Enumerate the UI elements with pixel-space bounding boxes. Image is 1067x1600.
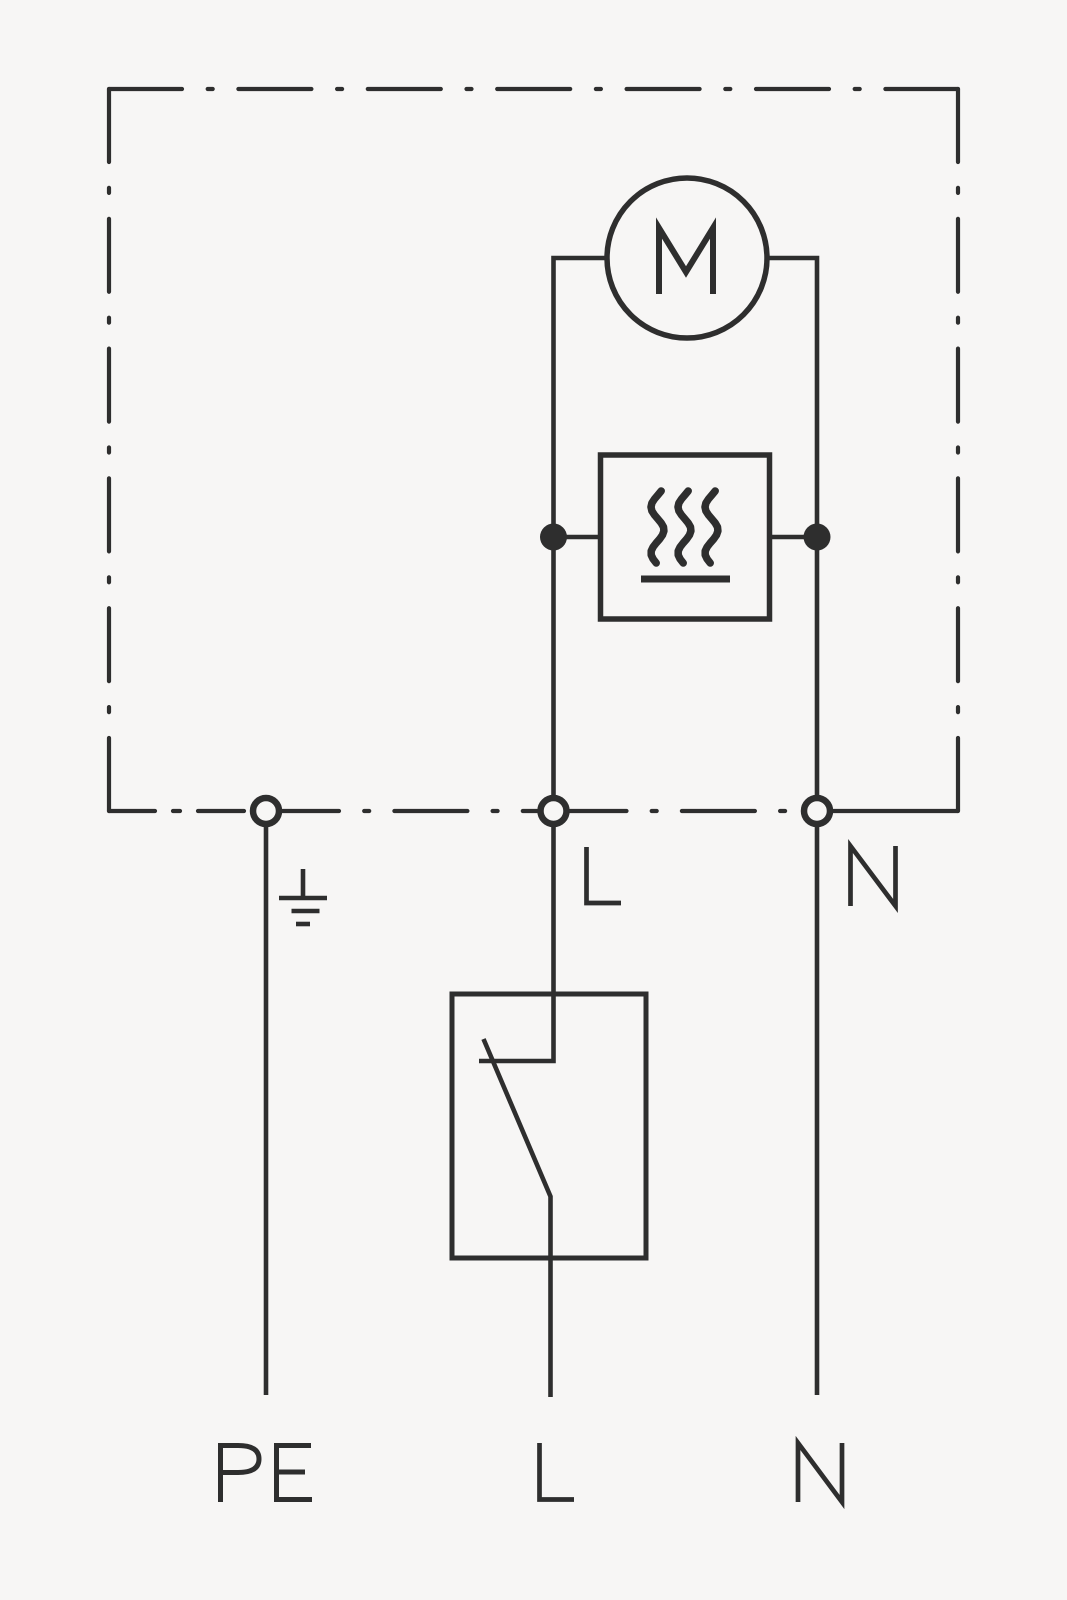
enclosure dash-dot border: bottom left segment to PE	[109, 809, 266, 813]
heater E1 box	[601, 455, 770, 619]
junction dot right	[804, 524, 831, 551]
motor M1 circle	[607, 178, 767, 338]
wire: motor left branch from node L riser	[554, 258, 608, 811]
motor letter M	[659, 228, 713, 294]
enclosure dash-dot border: right	[956, 89, 960, 811]
heater wave 3	[705, 491, 718, 563]
heater baseline bar	[641, 576, 730, 583]
terminal N	[804, 798, 830, 824]
wire: PE drop	[264, 824, 269, 1395]
terminal PE	[253, 798, 279, 824]
label L bottom	[540, 1443, 575, 1500]
terminal L	[541, 798, 567, 824]
wire: L drop into switch and fixed contact	[479, 824, 554, 1061]
label PE bottom	[221, 1446, 313, 1503]
label N at terminal	[851, 846, 896, 906]
enclosure dash-dot border: bottom segment L to N	[554, 809, 818, 813]
enclosure dash-dot border: left	[107, 89, 111, 811]
label L at terminal	[587, 847, 622, 903]
heater wave 1	[651, 491, 664, 563]
wire: motor right branch to N riser	[767, 258, 817, 811]
heater wave 2	[678, 491, 691, 563]
wire: N drop	[815, 824, 820, 1395]
enclosure dash-dot border: bottom segment N to corner	[817, 809, 958, 813]
ground symbol	[279, 869, 327, 924]
junction dot left	[540, 524, 567, 551]
wire: heater branch crossbar	[554, 535, 818, 540]
enclosure dash-dot border: bottom segment PE to L	[266, 809, 554, 813]
enclosure dash-dot border: top	[109, 87, 958, 91]
label N bottom	[798, 1443, 842, 1502]
switch S1 box	[452, 994, 646, 1258]
switch blade and lower wire to L terminal	[484, 1039, 551, 1397]
